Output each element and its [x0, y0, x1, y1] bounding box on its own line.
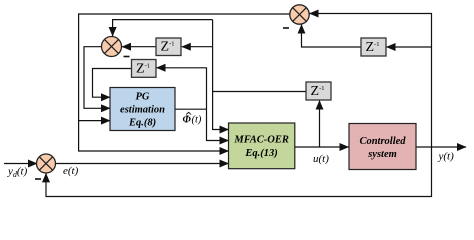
- wire: Z1 output into S1 right: [122, 46, 156, 48]
- minus sign at S1: [124, 56, 130, 58]
- wire: Z4 output up into S2 bottom: [302, 25, 362, 47]
- minus sign at S2: [283, 27, 289, 29]
- delay block Z2: [132, 60, 157, 78]
- wire: u(t-1) vertical x=212.6 from top corner down to MFAC in1: [213, 20, 229, 130]
- svg-text:system: system: [367, 149, 397, 160]
- minus sign at S3: [35, 178, 41, 180]
- svg-text:u(t): u(t): [313, 153, 329, 165]
- wire: u(t) branch up into Z3: [319, 101, 321, 147]
- wire: Z2 output to PG in1: [93, 69, 132, 98]
- summing junction S2: [290, 5, 309, 24]
- wire: S2 output top line to vertical A down to MFAC in3: [79, 14, 290, 151]
- wire: Z3 output to vertical x=212.6: [213, 91, 306, 93]
- wire: branch into Z1 right input: [182, 46, 213, 48]
- wire: top segment to S1 top input: [113, 20, 213, 36]
- wire: Controlled system output y(t) with arrow: [416, 146, 466, 148]
- svg-text:Eq.(13): Eq.(13): [244, 148, 277, 159]
- svg-text:MFAC-OER: MFAC-OER: [233, 135, 288, 146]
- block PG estimation Eq.(8): [110, 88, 175, 131]
- block MFAC-OER Eq.(13): [229, 123, 295, 169]
- wire: feedback bottom line to S3 bottom input: [46, 147, 432, 197]
- svg-text:Φ: Φ: [183, 115, 192, 126]
- svg-text:Controlled: Controlled: [359, 136, 406, 147]
- summing junction S1: [102, 37, 122, 57]
- svg-text:yd(t): yd(t): [7, 166, 28, 180]
- wire: y_d(t) input into S3: [4, 163, 37, 165]
- wire: MFAC output u(t) into Controlled system: [295, 146, 349, 148]
- svg-text:estimation: estimation: [120, 105, 165, 116]
- svg-text:e(t): e(t): [63, 165, 79, 177]
- delay block Z4: [361, 38, 386, 56]
- delay block Z3: [306, 82, 331, 100]
- wire: PG output phi to vertical x=206.5: [175, 108, 207, 110]
- summing junction S3: [37, 154, 56, 173]
- delay block Z1: [156, 38, 181, 56]
- wire: S1 output to PG in2: [84, 47, 110, 109]
- svg-text:PG: PG: [136, 92, 150, 103]
- svg-text:y(t): y(t): [438, 151, 455, 163]
- block Controlled system: [349, 124, 416, 170]
- wire: branch into Z4 right input: [387, 46, 432, 48]
- wire: phi vertical down into MFAC in2: [207, 109, 229, 140]
- wire: phi vertical to Z2 input: [157, 68, 207, 109]
- svg-text:Eq.(8): Eq.(8): [128, 118, 156, 129]
- wire: branch of vertical A into PG in3: [79, 120, 110, 122]
- wire: feedback vertical x=430 top to S2 right input: [310, 14, 432, 148]
- svg-text:(t): (t): [192, 115, 202, 126]
- wire: e(t) from S3 into MFAC in4: [56, 163, 229, 165]
